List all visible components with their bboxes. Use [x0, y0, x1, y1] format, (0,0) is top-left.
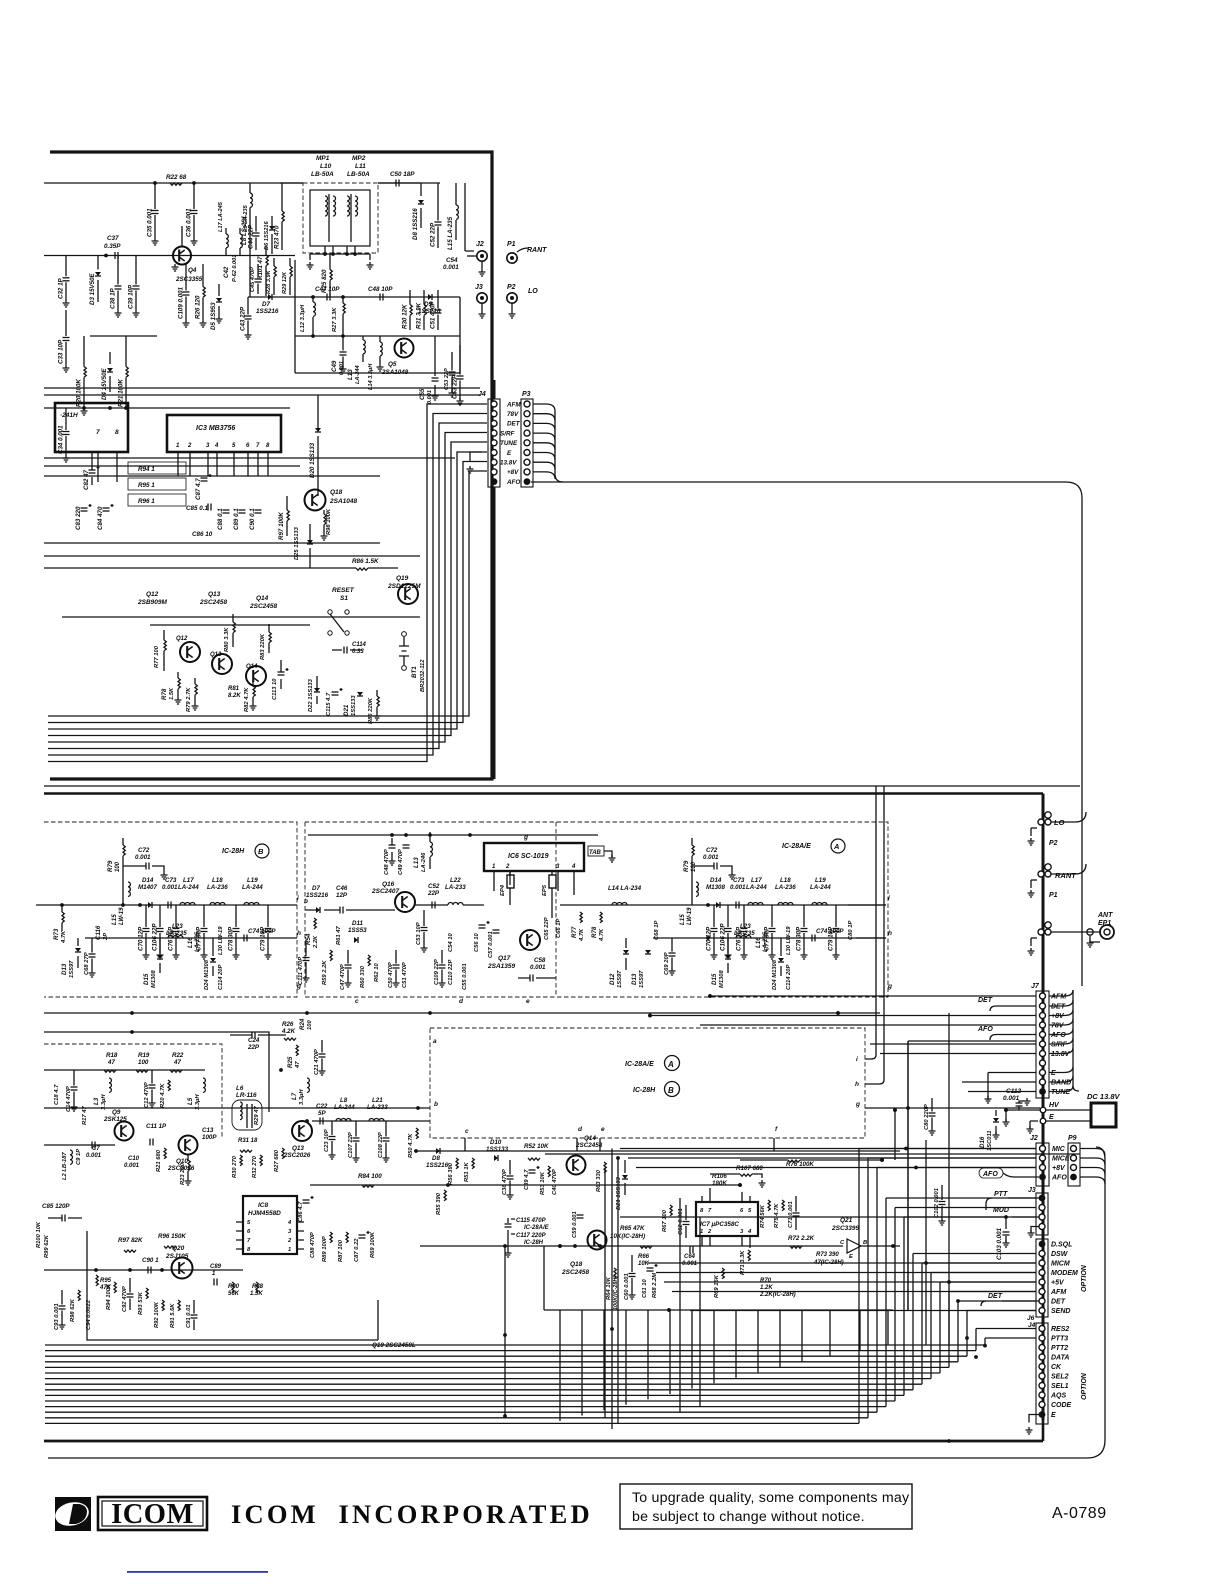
wire J4 cable stubs — [493, 380, 496, 399]
capacitor C33 10P — [65, 310, 67, 336]
svg-text:C54 10: C54 10 — [448, 933, 454, 952]
svg-text:D15: D15 — [143, 973, 150, 985]
svg-text:1: 1 — [176, 443, 180, 449]
svg-text:100: 100 — [115, 861, 121, 872]
wire bus 11 — [45, 1406, 886, 1408]
svg-text:C52 22P: C52 22P — [430, 222, 437, 247]
svg-text:1SS216: 1SS216 — [426, 1162, 449, 1169]
svg-text:8: 8 — [247, 1247, 251, 1253]
svg-text:2SC2458: 2SC2458 — [561, 1269, 589, 1276]
svg-text:L3: L3 — [93, 1097, 100, 1105]
connector pin J4 AFM — [491, 401, 497, 407]
svg-text:C89 0.1: C89 0.1 — [233, 508, 240, 530]
svg-text:L15 LA-235: L15 LA-235 — [447, 216, 454, 250]
svg-text:R20 4.7K: R20 4.7K — [160, 1083, 166, 1108]
transistor Q9 2SK125 — [115, 1122, 134, 1141]
svg-text:L23: L23 — [172, 923, 183, 930]
svg-text:C114 20P: C114 20P — [786, 965, 792, 990]
connector pin J4 S/RF — [491, 430, 497, 436]
svg-text:R91 5.6K: R91 5.6K — [170, 1303, 176, 1328]
connector pin J2 AFO — [1039, 1174, 1046, 1181]
svg-text:R74 56K: R74 56K — [760, 1204, 766, 1228]
connector pin DET — [1039, 1298, 1045, 1304]
svg-text:Q18: Q18 — [570, 1261, 583, 1268]
capacitor C43 22P — [247, 300, 249, 315]
svg-text:b: b — [304, 898, 308, 905]
svg-text:R22: R22 — [172, 1052, 184, 1059]
svg-text:C18 4.7: C18 4.7 — [54, 1084, 60, 1105]
svg-text:L11: L11 — [355, 163, 366, 170]
svg-text:DATA: DATA — [1051, 1355, 1069, 1362]
svg-text:R64 10K: R64 10K — [606, 1276, 612, 1300]
svg-text:R95 1: R95 1 — [138, 482, 155, 489]
svg-text:C114 20P: C114 20P — [218, 965, 224, 990]
wire mid box right edge — [907, 1041, 909, 1310]
svg-text:LA-244: LA-244 — [178, 884, 199, 891]
svg-text:R56 390: R56 390 — [448, 1162, 454, 1185]
connector pin MODEM — [1039, 1270, 1045, 1276]
svg-text:2SA1048: 2SA1048 — [381, 369, 409, 376]
svg-text:C88 470P: C88 470P — [310, 1232, 316, 1258]
wire rail y1032 — [44, 1032, 269, 1112]
svg-text:+8V: +8V — [1052, 1165, 1066, 1172]
wire top rail — [44, 182, 303, 184]
svg-text:4: 4 — [747, 1229, 752, 1235]
svg-text:C72: C72 — [138, 847, 150, 854]
connector pin SEL1 — [1039, 1383, 1045, 1389]
svg-text:C55: C55 — [419, 388, 426, 400]
svg-text:C43 22P: C43 22P — [240, 306, 247, 331]
svg-text:R97 82K: R97 82K — [118, 1237, 143, 1244]
svg-text:R85 220K: R85 220K — [368, 697, 374, 724]
svg-text:1SS133: 1SS133 — [351, 695, 357, 716]
svg-text:R78: R78 — [161, 688, 168, 700]
capacitor C53 22P — [451, 352, 453, 371]
wire vertical drops to bus — [611, 1149, 613, 1430]
svg-text:R51 1K: R51 1K — [464, 1162, 470, 1182]
wire bus 4 — [45, 1366, 949, 1368]
svg-text:R62 10: R62 10 — [374, 963, 380, 982]
connector pin J2 +8V — [1040, 1165, 1046, 1171]
svg-text:22P: 22P — [427, 890, 440, 897]
svg-text:2SJ105: 2SJ105 — [165, 1253, 189, 1260]
svg-text:S1: S1 — [340, 595, 348, 602]
wire rail y336 left — [90, 335, 157, 337]
wire row 297 — [248, 296, 460, 298]
connector pin DSW — [1039, 1251, 1045, 1257]
svg-text:C74 100P: C74 100P — [816, 928, 844, 935]
connector pin J7 nc — [1040, 1060, 1046, 1066]
svg-text:R67 100: R67 100 — [662, 1209, 668, 1232]
wire sub-box — [295, 260, 460, 373]
resistor R30 12K — [409, 290, 411, 305]
connector pin J7 DET — [1040, 1003, 1046, 1009]
connector option strip D.SQL..SEND — [1036, 1239, 1048, 1317]
svg-text:LR-116: LR-116 — [236, 1092, 257, 1099]
wire rail y1070 — [44, 1069, 205, 1071]
svg-text:2SD1225M: 2SD1225M — [387, 583, 421, 590]
svg-text:BR2032-112: BR2032-112 — [420, 659, 426, 692]
svg-text:C108 22P: C108 22P — [378, 1132, 384, 1158]
transistor Q18 2SC2458 — [588, 1231, 607, 1250]
wire J3 MUD row — [620, 1216, 1004, 1218]
connector pin J7 +8V — [1040, 1013, 1046, 1019]
wire B-box second chain — [85, 937, 297, 939]
svg-text:0.001: 0.001 — [730, 884, 746, 891]
svg-text:L19: L19 — [815, 877, 826, 884]
ICOM boxed wordmark — [98, 1497, 207, 1530]
svg-text:47: 47 — [173, 1059, 181, 1066]
transistor Q13 2SC2026 — [292, 1121, 312, 1141]
connector pin J4 TUNE — [491, 440, 497, 446]
wire : AFO long line from P3 to right trunk — [531, 482, 1082, 986]
svg-text:AFO: AFO — [506, 479, 520, 486]
svg-text:D5 1S953: D5 1S953 — [210, 302, 217, 330]
svg-text:R84 100: R84 100 — [358, 1173, 382, 1180]
svg-text:Q16: Q16 — [382, 881, 395, 888]
svg-text:PTT: PTT — [994, 1191, 1008, 1198]
connector pin MICM — [1039, 1260, 1045, 1266]
svg-text:C23 10P: C23 10P — [324, 1129, 330, 1152]
svg-text:C54: C54 — [446, 257, 458, 264]
svg-text:2: 2 — [287, 1238, 292, 1244]
wire J7 feed 13.8V — [880, 1053, 1036, 1055]
resistor R94 1 — [128, 462, 186, 474]
wire IC7 section box — [545, 1153, 1080, 1155]
svg-text:C34 0.001: C34 0.001 — [58, 425, 65, 454]
dashed block IC-28A/E IC-28H selector — [430, 1028, 865, 1138]
wire low rail — [44, 407, 290, 409]
svg-text:C36 0.001: C36 0.001 — [186, 208, 193, 237]
svg-text:P1: P1 — [1049, 892, 1058, 899]
wire bus 6 — [45, 1378, 931, 1380]
ground stub below E — [1030, 1121, 1038, 1129]
svg-text:C50 470P: C50 470P — [388, 962, 394, 988]
svg-text:R98 62K: R98 62K — [70, 1298, 76, 1322]
svg-text:DSW: DSW — [1051, 1251, 1069, 1258]
svg-text:EP1: EP1 — [1098, 920, 1111, 927]
svg-text:AFO: AFO — [1050, 1032, 1066, 1039]
connector pin AQS — [1039, 1392, 1045, 1398]
svg-text:6: 6 — [740, 1208, 744, 1214]
svg-text:C74 100P: C74 100P — [248, 928, 276, 935]
svg-text:C53 22P: C53 22P — [444, 368, 450, 390]
svg-text:L13: L13 — [413, 857, 420, 868]
wire — [415, 904, 484, 906]
connector pin RES2 — [1039, 1326, 1045, 1332]
svg-text:1SS97: 1SS97 — [639, 970, 645, 988]
capacitor C70 (A) — [713, 905, 715, 927]
connector pin J4 78V — [491, 411, 497, 417]
svg-text:R73 390: R73 390 — [816, 1252, 839, 1258]
svg-text:·241H: ·241H — [60, 412, 78, 419]
wire bus 5 — [45, 1372, 940, 1374]
svg-text:C114: C114 — [352, 642, 367, 648]
capacitor C39 10P — [135, 262, 137, 285]
svg-text:J7: J7 — [1031, 983, 1040, 990]
svg-text:10K: 10K — [638, 1261, 650, 1267]
wire bus 10 — [45, 1400, 895, 1402]
svg-text:E: E — [507, 450, 512, 457]
svg-text:be subject to change without n: be subject to change without notice. — [632, 1509, 865, 1525]
svg-text:1SS133: 1SS133 — [486, 1146, 509, 1153]
svg-text:L15: L15 — [679, 914, 686, 925]
svg-text:R82 4.7K: R82 4.7K — [244, 687, 250, 712]
svg-text:D7: D7 — [312, 885, 320, 892]
svg-text:8: 8 — [700, 1208, 704, 1214]
svg-text:DET: DET — [1051, 1004, 1066, 1011]
svg-text:S/RF: S/RF — [1051, 1042, 1068, 1049]
wire Q21 output — [861, 1245, 900, 1247]
wire P3 cable merge — [555, 411, 563, 482]
svg-text:Q5: Q5 — [388, 361, 397, 368]
IC partial box IC2 x241H — [55, 403, 128, 452]
svg-text:2SC2458: 2SC2458 — [575, 1142, 603, 1149]
connector pin J7 78V — [1040, 1022, 1046, 1028]
svg-text:+8V: +8V — [1051, 1013, 1065, 1020]
svg-text:1: 1 — [492, 864, 496, 870]
svg-text:L22: L22 — [450, 877, 461, 884]
svg-text:d: d — [578, 1126, 583, 1133]
svg-text:MP2: MP2 — [352, 155, 366, 162]
svg-text:DC 13.8V: DC 13.8V — [1087, 1092, 1121, 1101]
svg-text:100: 100 — [307, 1020, 313, 1030]
svg-text:1.5K: 1.5K — [169, 687, 175, 700]
svg-text:2SA1359: 2SA1359 — [487, 963, 515, 970]
svg-text:12P: 12P — [336, 892, 348, 899]
svg-text:AFM: AFM — [1050, 994, 1066, 1001]
svg-text:P-62 0.001: P-62 0.001 — [232, 255, 238, 282]
capacitor C49 0.001 — [342, 336, 344, 351]
capacitor C77 — [203, 905, 205, 927]
svg-text:E: E — [849, 1254, 854, 1260]
svg-text:LW-19: LW-19 — [687, 907, 693, 925]
svg-text:R55 390: R55 390 — [436, 1192, 442, 1215]
resistor R20 100K — [83, 336, 85, 367]
svg-text:R69 100K: R69 100K — [370, 1231, 376, 1258]
svg-text:R19: R19 — [138, 1052, 150, 1059]
wire R84 rail — [310, 1184, 740, 1186]
svg-text:To upgrade quality, some compo: To upgrade quality, some components may — [632, 1490, 910, 1506]
svg-text:C47 10P: C47 10P — [315, 286, 340, 293]
resistor R25 820 — [329, 254, 331, 270]
IC8 HJM4558D — [243, 1196, 297, 1254]
capacitor C78 — [235, 905, 237, 927]
wire J7 feed AFO — [996, 1034, 1036, 1036]
svg-text:Q4: Q4 — [188, 267, 197, 274]
svg-text:C117 220P: C117 220P — [516, 1233, 547, 1239]
svg-text:1SS216: 1SS216 — [256, 308, 279, 315]
svg-text:R98 100K: R98 100K — [326, 508, 332, 535]
svg-text:47: 47 — [107, 1059, 115, 1066]
ground — [1030, 938, 1032, 946]
svg-text:13.8V: 13.8V — [1051, 1051, 1071, 1058]
svg-text:C45 470P: C45 470P — [250, 267, 256, 292]
svg-text:AFO: AFO — [1051, 1175, 1067, 1182]
svg-text:C88 0.1: C88 0.1 — [217, 508, 224, 530]
svg-text:E: E — [1049, 1114, 1054, 1121]
svg-text:180K: 180K — [712, 1180, 727, 1187]
svg-text:L30 LW-19: L30 LW-19 — [218, 926, 224, 955]
wire audio rail y1246 — [420, 1245, 843, 1247]
svg-text:C40 470P: C40 470P — [552, 1169, 558, 1195]
svg-text:SEL1: SEL1 — [1051, 1383, 1069, 1390]
node AFO label — [979, 1168, 1003, 1178]
connector pin +5V — [1039, 1279, 1045, 1285]
svg-text:Q21: Q21 — [840, 1217, 853, 1224]
svg-text:S/RF: S/RF — [500, 430, 514, 437]
svg-text:1: 1 — [212, 1271, 216, 1277]
svg-text:0.001: 0.001 — [530, 964, 546, 971]
svg-text:0.001: 0.001 — [682, 1261, 698, 1267]
wire g net — [308, 834, 598, 836]
capacitor C34 0.001 — [65, 408, 67, 430]
wire J7 feed 78V — [700, 1024, 1036, 1026]
svg-text:B: B — [863, 1240, 867, 1246]
wire J2 feed rows — [620, 1148, 1036, 1150]
wire rail y1151 — [414, 1150, 900, 1152]
svg-text:C57 0.001: C57 0.001 — [488, 931, 494, 958]
svg-text:J3: J3 — [475, 284, 483, 291]
svg-text:R87 100: R87 100 — [338, 1239, 344, 1262]
svg-text:7: 7 — [247, 1238, 251, 1244]
svg-text:i: i — [297, 895, 299, 902]
svg-text:C80 220P: C80 220P — [924, 1104, 930, 1130]
svg-text:RANT: RANT — [527, 247, 547, 254]
svg-text:L2 LB-187: L2 LB-187 — [62, 1152, 68, 1180]
wire bus 8 — [45, 1389, 913, 1391]
inductor L9 LA-235 — [240, 234, 242, 248]
svg-text:C38 1P: C38 1P — [110, 287, 117, 309]
wire bus 3 — [45, 1361, 958, 1363]
jack P1 — [507, 253, 517, 263]
svg-text:5: 5 — [748, 1208, 752, 1214]
svg-text:+5V: +5V — [1051, 1280, 1065, 1287]
svg-text:4.7K: 4.7K — [599, 928, 605, 942]
svg-text:C84 470: C84 470 — [97, 506, 104, 530]
svg-text:LA-233: LA-233 — [367, 1104, 388, 1111]
wire J7 feed DET — [996, 1005, 1036, 1007]
svg-text:g: g — [887, 983, 892, 990]
svg-text:2: 2 — [707, 1229, 712, 1235]
svg-text:Q19: Q19 — [396, 575, 409, 582]
connector pin SEND — [1039, 1308, 1045, 1314]
svg-text:Q18: Q18 — [330, 489, 343, 496]
svg-text:TAB: TAB — [589, 850, 602, 856]
svg-text:R79: R79 — [107, 860, 114, 872]
svg-text:D14: D14 — [710, 877, 722, 884]
svg-text:i: i — [856, 1056, 858, 1063]
svg-text:D21: D21 — [343, 704, 350, 716]
capacitor C70 — [145, 905, 147, 927]
wire right chain exit — [848, 905, 886, 938]
svg-text:C107 22P: C107 22P — [348, 1132, 354, 1158]
svg-text:8.2K: 8.2K — [228, 693, 241, 699]
svg-text:LW-19: LW-19 — [119, 907, 125, 925]
svg-text:C83 220: C83 220 — [75, 506, 82, 530]
svg-text:5: 5 — [232, 443, 236, 449]
svg-text:L8: L8 — [340, 1097, 348, 1104]
svg-text:L13: L13 — [347, 369, 354, 380]
svg-text:Q14: Q14 — [246, 664, 258, 670]
resistor R28 3.9K — [274, 266, 276, 277]
resistor R95 1 — [128, 478, 186, 490]
svg-text:2SK125: 2SK125 — [103, 1116, 127, 1123]
svg-text:C60 0.001: C60 0.001 — [624, 1273, 630, 1300]
svg-text:C90 1: C90 1 — [142, 1257, 159, 1264]
svg-text:LA-244: LA-244 — [242, 884, 263, 891]
svg-text:22P: 22P — [247, 1044, 260, 1051]
svg-text:C24: C24 — [248, 1037, 260, 1044]
note box — [620, 1484, 912, 1529]
svg-text:LA-244: LA-244 — [746, 884, 767, 891]
wire : top shield box border — [50, 152, 492, 779]
svg-text:6: 6 — [246, 443, 250, 449]
connector pin P9 +8V — [1071, 1165, 1077, 1171]
connector pin P3 AFM — [524, 401, 530, 407]
svg-text:M1308: M1308 — [719, 969, 725, 988]
svg-text:R96 150K: R96 150K — [158, 1233, 186, 1240]
svg-text:R69 15K: R69 15K — [714, 1274, 720, 1298]
svg-text:13.8V: 13.8V — [500, 460, 517, 467]
svg-text:C72: C72 — [706, 847, 718, 854]
svg-text:E: E — [1051, 1070, 1056, 1077]
wire : J7 cable curves — [1073, 990, 1079, 1091]
svg-text:R96 1: R96 1 — [138, 498, 155, 505]
connector pin CK — [1039, 1364, 1045, 1370]
svg-text:R52 10K: R52 10K — [524, 1143, 549, 1150]
svg-text:LA-235: LA-235 — [195, 931, 201, 952]
capacitor C106 (A) — [727, 905, 729, 927]
svg-text:3.3µH: 3.3µH — [101, 1094, 107, 1110]
svg-text:4: 4 — [214, 443, 219, 449]
svg-text:L17 LA-245: L17 LA-245 — [218, 201, 224, 232]
wire bus 0 — [45, 1344, 985, 1346]
svg-text:R80 3.3K: R80 3.3K — [224, 627, 230, 652]
svg-text:d: d — [459, 998, 464, 1005]
connector pin J7 BAND — [1040, 1079, 1046, 1085]
capacitor C44 22P — [255, 216, 257, 232]
svg-text:AFO: AFO — [982, 1171, 998, 1178]
jack J2 — [477, 251, 487, 261]
connector pin E — [1039, 1411, 1046, 1418]
svg-text:HV: HV — [1049, 1102, 1060, 1109]
svg-text:R27 680: R27 680 — [274, 1149, 280, 1172]
svg-text:R28 3.9K: R28 3.9K — [266, 269, 272, 294]
svg-text:IC3 MB3756: IC3 MB3756 — [196, 425, 235, 432]
wire option rows — [648, 1262, 1036, 1264]
svg-text:0.001: 0.001 — [162, 884, 178, 891]
wire rails above reset row — [44, 555, 420, 557]
connector pin J2 MIC — [1040, 1146, 1046, 1152]
svg-text:D24 M1308: D24 M1308 — [772, 959, 778, 990]
svg-text:C109 0.001: C109 0.001 — [178, 286, 185, 319]
svg-text:L15: L15 — [111, 914, 118, 925]
svg-text:R22 68: R22 68 — [166, 174, 187, 181]
svg-text:R83 220K: R83 220K — [260, 633, 266, 660]
svg-text:C50 18P: C50 18P — [390, 171, 415, 178]
svg-text:D14: D14 — [142, 877, 154, 884]
connector pin P9 MIC — [1071, 1146, 1077, 1152]
wire bus 2 — [45, 1355, 967, 1357]
svg-text:L19: L19 — [247, 877, 258, 884]
capacitor C109 0.001 — [185, 264, 187, 291]
capacitor C51 470P — [437, 290, 439, 309]
svg-text:MIC: MIC — [1052, 1146, 1066, 1153]
svg-text:R93 53K: R93 53K — [138, 1291, 144, 1315]
junction dots mesh — [708, 994, 712, 998]
svg-text:D7: D7 — [262, 301, 271, 308]
